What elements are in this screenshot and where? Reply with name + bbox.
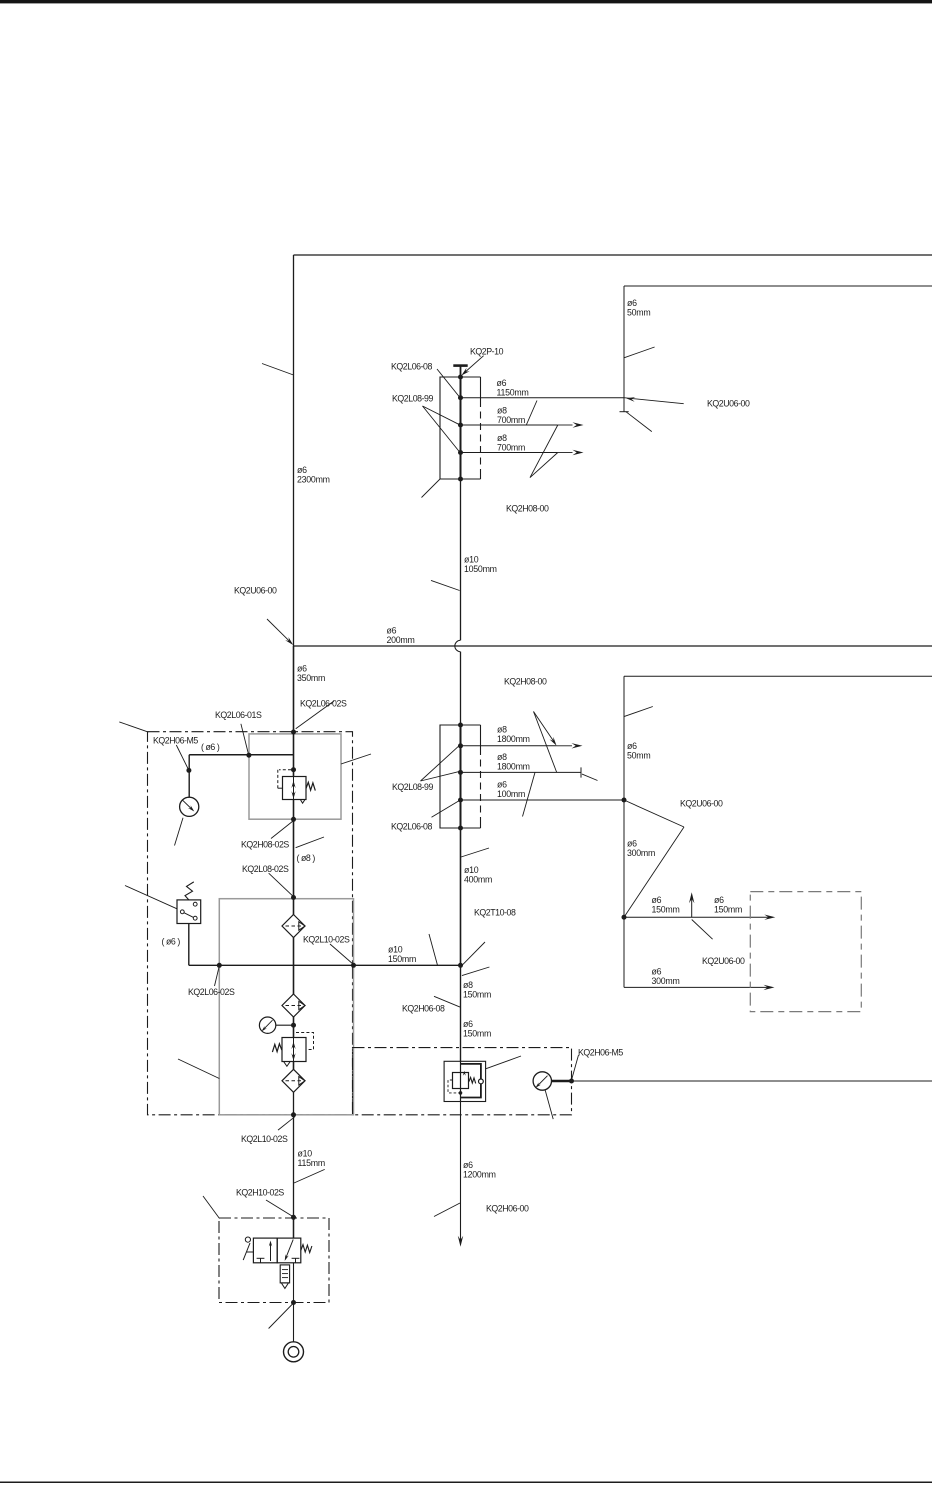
svg-text:1050mm: 1050mm [464,564,497,574]
svg-text:KQ2L06-01S: KQ2L06-01S [215,710,262,720]
svg-text:KQ2H06-08: KQ2H06-08 [402,1004,445,1014]
svg-text:150mm: 150mm [463,990,491,1000]
svg-text:KQ2H06-00: KQ2H06-00 [486,1204,529,1214]
svg-text:2300mm: 2300mm [297,475,330,485]
svg-text:KQ2H08-00: KQ2H08-00 [506,504,549,514]
svg-text:KQ2L08-02S: KQ2L08-02S [242,864,289,874]
svg-text:1800mm: 1800mm [497,734,530,744]
svg-text:KQ2P-10: KQ2P-10 [470,347,504,357]
svg-text:KQ2U06-00: KQ2U06-00 [680,799,723,809]
svg-text:KQ2L08-99: KQ2L08-99 [392,394,434,404]
svg-text:KQ2L08-99: KQ2L08-99 [392,782,434,792]
svg-text:150mm: 150mm [714,905,742,915]
svg-text:350mm: 350mm [297,673,325,683]
svg-text:KQ2U06-00: KQ2U06-00 [234,586,277,596]
svg-text:50mm: 50mm [627,308,650,318]
svg-text:200mm: 200mm [387,635,415,645]
svg-text:KQ2L06-08: KQ2L06-08 [391,362,433,372]
svg-text:50mm: 50mm [627,751,650,761]
svg-text:KQ2T10-08: KQ2T10-08 [474,908,516,918]
svg-text:KQ2U06-00: KQ2U06-00 [707,399,750,409]
svg-text:KQ2L10-02S: KQ2L10-02S [241,1134,288,1144]
svg-text:1800mm: 1800mm [497,762,530,772]
svg-text:KQ2H06-M5: KQ2H06-M5 [153,736,198,746]
svg-text:150mm: 150mm [388,954,416,964]
svg-text:700mm: 700mm [497,443,525,453]
svg-text:100mm: 100mm [497,789,525,799]
svg-text:KQ2H10-02S: KQ2H10-02S [236,1188,284,1198]
svg-text:400mm: 400mm [464,875,492,885]
svg-text:1200mm: 1200mm [463,1170,496,1180]
svg-text:150mm: 150mm [652,905,680,915]
svg-text:115mm: 115mm [298,1158,325,1168]
svg-text:KQ2L06-02S: KQ2L06-02S [188,987,235,997]
svg-text:KQ2H08-00: KQ2H08-00 [504,677,547,687]
svg-text:( ø6 ): ( ø6 ) [162,937,181,947]
svg-text:300mm: 300mm [652,976,680,986]
svg-text:( ø6 ): ( ø6 ) [201,742,220,752]
svg-text:KQ2H06-M5: KQ2H06-M5 [578,1048,623,1058]
svg-text:300mm: 300mm [627,848,655,858]
svg-text:KQ2U06-00: KQ2U06-00 [702,956,745,966]
svg-text:( ø8 ): ( ø8 ) [297,853,316,863]
svg-text:KQ2L06-02S: KQ2L06-02S [300,699,347,709]
svg-text:150mm: 150mm [463,1029,491,1039]
svg-text:KQ2L10-02S: KQ2L10-02S [303,935,350,945]
svg-text:700mm: 700mm [497,415,525,425]
svg-text:1150mm: 1150mm [497,388,529,398]
svg-text:KQ2L06-08: KQ2L06-08 [391,822,433,832]
svg-text:KQ2H08-02S: KQ2H08-02S [241,840,289,850]
